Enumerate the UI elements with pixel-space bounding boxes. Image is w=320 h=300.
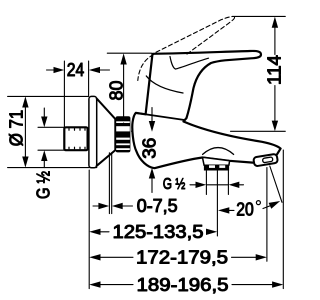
node 80 dimension [107,53,127,131]
wire: extension line 80 top (lever top) [107,52,151,54]
svg-text:G ½: G ½ [34,171,54,199]
node 36 dimension [139,108,159,193]
svg-text:36: 36 [139,138,159,159]
wire: extension line 114 bottom [231,130,286,132]
diverter knob [253,154,278,167]
wire: G half outlet right extension [227,171,229,195]
svg-text:Ø 71: Ø 71 [6,110,26,147]
lever thumb detail [170,57,209,70]
svg-text:189-196,5: 189-196,5 [137,275,229,295]
wire: extension line diam71 top [8,95,89,97]
union nut knurled [116,116,131,152]
wire: pipe bottom extension [38,149,64,151]
aerator flange [202,157,229,165]
wire: double line wall gap left [108,153,110,214]
wire: center axis line [132,130,146,132]
node 20 degree dimension [218,166,282,219]
wire: extension line 114 top [232,15,285,17]
node 24 dimension row [47,60,110,80]
svg-text:24: 24 [67,60,85,80]
body top edge under lever [136,113,184,120]
wire: double line wall gap right [111,153,113,214]
escutcheon cone [97,99,116,166]
wire: extension line diam71 bottom [8,167,97,169]
wire: extension x283 tip [282,150,284,289]
svg-text:G ½: G ½ [163,176,186,193]
faucet body silhouette [132,51,280,168]
node diameter 71 dimension [6,96,28,167]
svg-text:114: 114 [265,55,285,85]
wire: outlet center line [216,171,218,236]
wire: G half outlet left extension [205,171,207,195]
svg-text:20: 20 [236,199,254,219]
svg-text:172-179,5: 172-179,5 [136,248,228,268]
wire: extension line 24 left [63,61,65,127]
node 80 bottom arrow stem in nut slit [123,123,125,125]
aerator knurled band [204,165,229,170]
outlet boss arc [203,148,234,155]
wire: extension line 24 right [88,61,90,96]
node 189-196,5 dimension [89,275,283,295]
wire: long left extension x89 [88,170,90,289]
node 0-7,5 dimension [93,196,178,216]
wire: pipe top extension [38,126,64,128]
pipe stub G half [64,127,87,150]
node 125-133,5 dimension [89,222,217,242]
dashed lever raised position [138,17,235,81]
svg-text:80: 80 [107,81,127,101]
node 172-179,5 dimension [89,248,267,268]
svg-text:125-133,5: 125-133,5 [113,222,204,242]
node 114 dimension [265,17,285,132]
svg-text:0-7,5: 0-7,5 [137,196,178,216]
escutcheon wall disc [89,96,97,167]
node pipe G half vertical arrows [41,108,47,168]
wire: extension x267 knob [266,168,268,262]
node G half outlet dimension [163,176,244,193]
lever seam [146,76,183,93]
